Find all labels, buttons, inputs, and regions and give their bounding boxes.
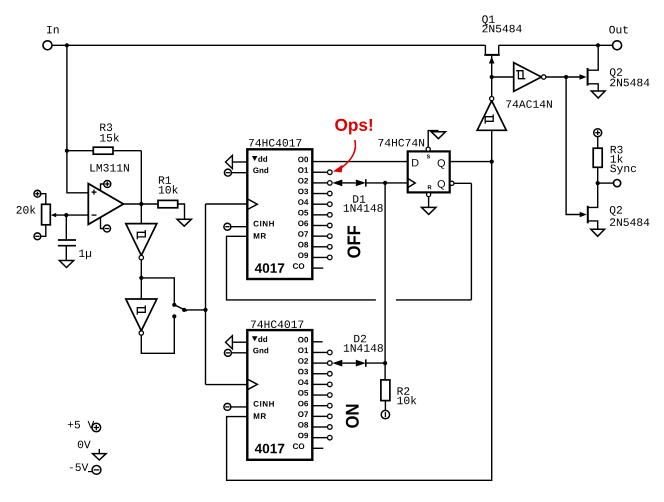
- resistor R1 10k: [158, 200, 178, 207]
- wire In vertical to comparator + input: [67, 45, 88, 193]
- flip-flop U5 74HC74N: [408, 151, 450, 192]
- node In terminal: [43, 41, 52, 50]
- U4 output pin circles O1-O9: [312, 351, 327, 353]
- node Out terminal: [613, 41, 622, 50]
- U5 /Q output bubble: [450, 181, 454, 185]
- IC U3 74HC4017: [247, 149, 312, 279]
- power +5V symbol: [68, 421, 95, 429]
- IC U4 74HC4017: [247, 330, 312, 460]
- wire U6 output to Q1 gate node: [491, 55, 493, 97]
- U3 output pin circles O1-O9: [312, 171, 327, 173]
- U5 R pin bubble and ground: [427, 193, 431, 197]
- wire R3 to output node: [140, 151, 142, 204]
- U4 Gnd supply bubble: [231, 352, 247, 354]
- wire sync node to lower Q2 drain: [588, 183, 598, 207]
- wire switch pole to clock rail: [184, 309, 205, 311]
- resistor R3 15k: [67, 150, 93, 152]
- switch SW1: [172, 303, 176, 307]
- U4 clock input triangle: [247, 379, 257, 390]
- U4 CO stub: [312, 447, 323, 449]
- wire inverter A out to switch: [141, 278, 174, 305]
- capacitor C1 1u: [65, 215, 67, 239]
- power 0V symbol: [78, 441, 91, 449]
- resistor R2 10k: [384, 363, 386, 380]
- ground below R1: [177, 219, 191, 226]
- U3 CO stub: [312, 267, 323, 269]
- U3 clock input triangle: [247, 199, 257, 210]
- wire top rail left (In to Q1 drain): [52, 44, 485, 46]
- U5 clock triangle: [408, 178, 416, 187]
- ground below lower Q2: [591, 229, 605, 236]
- ground below capacitor: [59, 261, 73, 268]
- U4 CINH supply bubble: [231, 406, 247, 408]
- wire U5 Q output: [450, 161, 492, 163]
- U3 CINH supply bubble: [231, 226, 247, 228]
- wire op-amp output: [123, 203, 158, 205]
- wire U4 MR to U5 Q: [227, 130, 492, 480]
- wire top rail right (Q1 to Out): [499, 44, 613, 46]
- pot + supply bubble: [41, 194, 46, 205]
- diode D1 1N4148: [332, 180, 342, 187]
- op-amp V- bubble: [101, 218, 104, 229]
- label ON (rotated): [346, 405, 359, 428]
- transistor Q2 (lower) 2N5484: [587, 206, 589, 224]
- pot - supply bubble: [41, 225, 46, 237]
- transistor Q1 2N5484: [484, 54, 500, 56]
- resistor R3 1k: [594, 129, 602, 137]
- diode D2 1N4148: [332, 360, 342, 367]
- U3 Vdd power flag: [232, 161, 247, 163]
- op-amp U1 LM311N: [88, 184, 123, 225]
- label OFF (rotated): [347, 226, 360, 258]
- node Sync terminal: [596, 181, 600, 185]
- U4 Vdd power flag: [232, 341, 247, 343]
- pot wiper arrow: [54, 214, 88, 216]
- wire inverter B out to switch: [141, 316, 174, 353]
- U5 S pin bubble and ground: [426, 147, 430, 151]
- annotation Ops!: [335, 119, 372, 135]
- wire U7 out to Q2 gates: [546, 76, 580, 78]
- op-amp V+ bubble: [101, 184, 104, 191]
- ground below upper Q2: [591, 91, 605, 98]
- wire clock rail: [205, 204, 207, 385]
- annotation red arrow: [341, 140, 356, 169]
- schmitt inverter U2A: [140, 204, 142, 224]
- power -5V symbol: [70, 464, 89, 472]
- U4 O0 stub: [312, 341, 322, 343]
- potentiometer 20k: [42, 204, 51, 225]
- wire U3 O0 to U5 D input: [312, 161, 407, 163]
- wire inverter A out: [140, 260, 142, 278]
- wire U3 MR to U5 /Q (with jump over vertical): [227, 236, 376, 300]
- schmitt inverter U7 74AC14N (right): [492, 76, 514, 78]
- transistor Q2 (upper) 2N5484: [587, 68, 589, 86]
- U3 Gnd supply bubble: [231, 172, 247, 174]
- schmitt inverter U6 (up): [477, 101, 506, 131]
- schmitt inverter U2B: [140, 278, 142, 299]
- wire gate rail down to lower Q2: [566, 77, 580, 215]
- wire D1 node down to D2 node: [384, 183, 386, 363]
